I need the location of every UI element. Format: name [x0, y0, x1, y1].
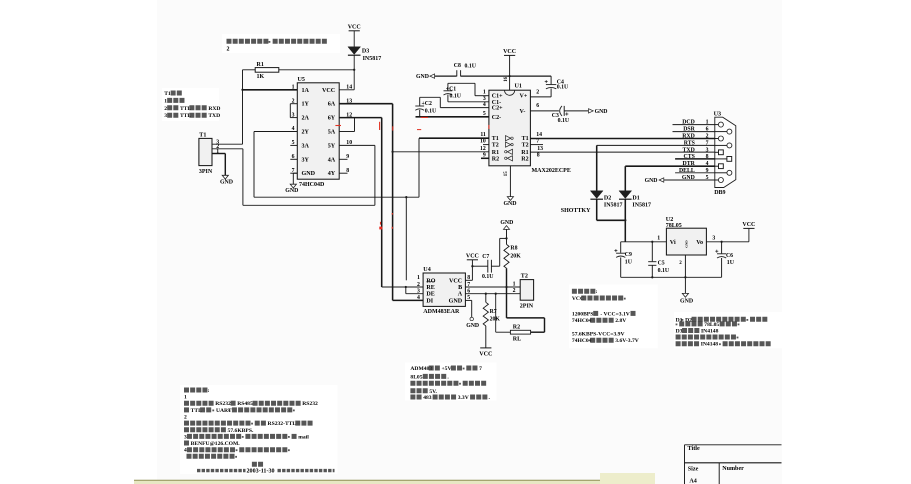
- capacitor C9: [620, 242, 622, 253]
- node junction C5 tap: [651, 241, 653, 243]
- svg-text:20K: 20K: [510, 253, 521, 259]
- svg-text:2PIN: 2PIN: [520, 303, 534, 309]
- svg-text:12: 12: [480, 146, 486, 152]
- svg-text:0.1U: 0.1U: [465, 64, 477, 70]
- svg-text:1: 1: [292, 85, 295, 91]
- capacitor C7: [472, 265, 487, 267]
- note background boxes: [222, 34, 340, 53]
- svg-text:8L05: 8L05: [410, 374, 422, 380]
- svg-text:IN5817: IN5817: [632, 202, 651, 208]
- svg-text:57.6KBPS-VCC=3.9V: 57.6KBPS-VCC=3.9V: [572, 331, 625, 337]
- node junction R1 right end: [353, 69, 355, 71]
- svg-text:1: 1: [417, 275, 420, 281]
- svg-text:T2: T2: [521, 273, 528, 279]
- svg-text:GND: GND: [680, 298, 693, 304]
- svg-text:D2: D2: [604, 195, 611, 201]
- red mark 4: [335, 125, 341, 127]
- svg-text:Number: Number: [722, 466, 744, 472]
- svg-text:DB9: DB9: [714, 190, 725, 196]
- wire RE to DE jog: [405, 287, 407, 294]
- wire DB9 GND: [664, 179, 715, 181]
- svg-text:D1: D1: [632, 195, 639, 201]
- wire VCC stem into U1 pin16: [509, 55, 511, 90]
- capacitor C4: [550, 76, 552, 84]
- ground symbol T1 pin1: [222, 175, 228, 179]
- red mark 8: [380, 222, 382, 225]
- svg-text:GND: GND: [595, 109, 608, 115]
- svg-text:13: 13: [537, 146, 543, 152]
- svg-text:RE: RE: [426, 285, 434, 291]
- wire U4 GND pin5: [465, 299, 471, 301]
- decor bottom strip: [134, 480, 655, 484]
- red mark 6: [488, 125, 490, 129]
- U5 unused stubs 4A 4Y: [339, 158, 347, 160]
- U5 pin7 GND: [293, 172, 297, 174]
- svg-text::: :: [596, 289, 598, 295]
- svg-text:3.3V: 3.3V: [458, 395, 469, 401]
- wire 1Y to 2A jog: [289, 104, 291, 118]
- power VCC U1: [504, 54, 515, 56]
- U1 top notch arc: [505, 90, 515, 95]
- svg-text:4: 4: [417, 295, 420, 301]
- node junction VCC stem: [508, 75, 510, 77]
- capacitor C2: [415, 105, 424, 107]
- wire 5Y output to T1 pin2 bus: [339, 144, 375, 146]
- svg-text:GND: GND: [449, 298, 463, 304]
- svg-text:VCC: VCC: [742, 222, 755, 228]
- svg-text:VCC: VCC: [479, 351, 492, 357]
- power VCC U4: [467, 259, 478, 261]
- svg-text:1U: 1U: [727, 260, 735, 266]
- U4 RE overline: [426, 281, 434, 283]
- wire R7 to VCC: [485, 326, 487, 348]
- diode D2: [590, 191, 603, 199]
- svg-text:74HC04D: 74HC04D: [299, 182, 325, 188]
- svg-text:GND: GND: [466, 323, 479, 329]
- U5 left pin stubs: [290, 103, 297, 105]
- svg-text:3Y: 3Y: [302, 157, 310, 163]
- power VCC (top, above D3): [349, 30, 360, 32]
- node junction R1OUT joins 6A/DI net: [391, 151, 393, 153]
- svg-text:IN5817: IN5817: [604, 202, 623, 208]
- svg-text:R1: R1: [521, 150, 528, 156]
- ground symbol U4 (circle style): [470, 317, 473, 320]
- svg-text:1Y: 1Y: [302, 102, 310, 108]
- svg-text:RL: RL: [513, 337, 521, 343]
- svg-text:2003-11-30: 2003-11-30: [247, 468, 275, 474]
- svg-text:78L05: 78L05: [704, 322, 719, 328]
- svg-text:5V.: 5V.: [429, 389, 437, 395]
- capacitor C6: [721, 242, 723, 254]
- svg-text:R8: R8: [510, 246, 517, 252]
- regulator U2 78L05 body: [666, 228, 706, 255]
- note: dashed date line: [197, 469, 246, 472]
- svg-text:RS485: RS485: [237, 401, 253, 407]
- connector T2 2PIN body: [520, 280, 533, 301]
- svg-text:6Y: 6Y: [328, 116, 336, 122]
- svg-text:VCC: VCC: [503, 49, 516, 55]
- wire U2 GND pin to rail: [684, 255, 686, 277]
- DB9 holes: [715, 124, 719, 126]
- svg-text:B: B: [458, 285, 462, 291]
- note: test results block: [572, 289, 595, 294]
- svg-text:C1+: C1+: [492, 94, 503, 100]
- svg-text:4Y: 4Y: [328, 171, 336, 177]
- svg-text:RO: RO: [426, 278, 435, 284]
- svg-text:IN4148: IN4148: [701, 342, 719, 348]
- wire branch down to U4 RO: [405, 197, 407, 280]
- wire B net down to RL: [506, 287, 508, 318]
- wire U1 T2OUT stub: [530, 144, 543, 146]
- svg-text:3: 3: [184, 434, 187, 440]
- svg-text:T2: T2: [492, 143, 499, 149]
- svg-text:C2+: C2+: [492, 106, 503, 112]
- svg-text:1U: 1U: [625, 259, 633, 265]
- wire DSR: [673, 131, 715, 133]
- svg-text:1: 1: [184, 395, 187, 401]
- node junction B/RL: [505, 286, 507, 288]
- svg-text:1: 1: [483, 90, 486, 96]
- svg-text:2: 2: [164, 106, 167, 112]
- svg-text:2: 2: [184, 415, 187, 421]
- wire DTR down to D1: [624, 166, 626, 191]
- svg-text:RXD: RXD: [208, 106, 220, 112]
- svg-text:4A: 4A: [328, 157, 336, 163]
- wire U4 A row to T2 pin2: [465, 293, 520, 295]
- svg-text:RS232: RS232: [302, 401, 318, 407]
- svg-text:3: 3: [164, 113, 167, 119]
- svg-text:C8: C8: [454, 63, 461, 69]
- wire R1 left down to T1 pin3: [242, 70, 244, 144]
- wire U1 T1IN row: [419, 137, 489, 139]
- svg-text:10: 10: [480, 139, 486, 145]
- svg-text:ADM483EAR: ADM483EAR: [423, 309, 460, 315]
- svg-text:R2: R2: [521, 156, 528, 162]
- svg-text:T1: T1: [522, 136, 529, 142]
- node junction A/RL: [495, 293, 497, 295]
- svg-text:A: A: [458, 292, 463, 298]
- wire RE row into U4: [382, 286, 423, 288]
- svg-text:VCC: VCC: [348, 25, 361, 31]
- note: pull-up resistor comment (simulated hanzi): [227, 39, 269, 44]
- svg-text:3A: 3A: [302, 143, 310, 149]
- svg-text:Title: Title: [688, 445, 701, 452]
- svg-text:IN4148: IN4148: [701, 329, 719, 335]
- svg-text:14: 14: [346, 85, 352, 91]
- svg-text:C5: C5: [658, 261, 665, 267]
- svg-text:1: 1: [657, 236, 660, 242]
- svg-text:RS232: RS232: [215, 401, 231, 407]
- svg-text:+C1: +C1: [446, 86, 456, 92]
- svg-text:3: 3: [417, 289, 420, 295]
- svg-text:5A: 5A: [328, 130, 336, 136]
- resistor R8: [504, 244, 509, 268]
- svg-text:SHOTTKY: SHOTTKY: [561, 208, 591, 214]
- svg-text:0.1U: 0.1U: [557, 85, 569, 91]
- svg-text:16: 16: [504, 76, 509, 81]
- wire D1 cathode down to 78L05 input: [624, 199, 626, 242]
- wire VCC to D3: [353, 31, 355, 47]
- svg-text:2: 2: [417, 282, 420, 288]
- svg-text:C6: C6: [726, 253, 733, 259]
- svg-text:3: 3: [712, 236, 715, 242]
- svg-text:GND: GND: [285, 188, 298, 194]
- IC U1 MAX202ECPE body: [489, 90, 531, 166]
- svg-text:11: 11: [480, 132, 486, 138]
- wire U4 B row to T2 pin1: [465, 286, 520, 288]
- ground symbol right of C3: [589, 109, 594, 113]
- svg-text:DE: DE: [426, 292, 434, 298]
- svg-text:6A: 6A: [328, 102, 336, 108]
- svg-text:3.6V-3.7V: 3.6V-3.7V: [615, 338, 639, 344]
- wire 6Y to 5A loop: [354, 118, 356, 132]
- svg-text:U4: U4: [423, 267, 430, 273]
- title block frame: [685, 444, 782, 446]
- svg-text:R2: R2: [492, 156, 499, 162]
- connector U3 DB9 shell: [715, 117, 736, 187]
- wire TXD to U1 R1IN: [530, 151, 714, 153]
- svg-text:GND: GND: [645, 178, 658, 184]
- svg-text:D3: D3: [362, 49, 369, 55]
- wire C3 to GND arrow: [564, 110, 588, 112]
- wire D2 cathode to junction: [596, 199, 598, 220]
- wire RXD from U1 T1OUT: [530, 138, 714, 140]
- wire T1 pin1 to ground: [212, 153, 225, 155]
- ground symbol U2: [684, 277, 686, 293]
- red mark 10: [391, 213, 393, 215]
- wire V- to C3: [530, 110, 559, 112]
- wire U1 R1OUT row: [393, 151, 489, 153]
- svg-text:2: 2: [513, 288, 516, 294]
- wire DCD: [673, 124, 715, 126]
- svg-text:2: 2: [227, 47, 230, 53]
- svg-text:Size: Size: [688, 467, 699, 473]
- svg-text:A4: A4: [689, 479, 696, 484]
- svg-text:GND: GND: [302, 171, 316, 177]
- svg-text:U5: U5: [298, 77, 305, 83]
- svg-text:TXD: TXD: [208, 113, 220, 119]
- wire U2 output to VCC: [706, 241, 749, 243]
- wire DELL: [675, 172, 715, 174]
- svg-text:74HC04: 74HC04: [572, 318, 592, 324]
- wire T1 pin3 up to R1 node: [212, 143, 243, 145]
- wire DI row into U4: [393, 299, 424, 301]
- red mark 3: [392, 126, 394, 130]
- svg-text:483: 483: [423, 395, 432, 401]
- wire CTS: [675, 158, 715, 160]
- capacitor C1 loop: [448, 82, 475, 84]
- svg-text:5: 5: [483, 111, 486, 117]
- connector T1 3PIN body: [199, 138, 212, 165]
- svg-text:U1: U1: [515, 84, 522, 90]
- svg-text:15: 15: [504, 171, 509, 176]
- wire net 1A input: [243, 89, 298, 91]
- wire U1 pin15 to ground: [509, 166, 511, 197]
- node junction RE/DE tie: [405, 286, 407, 288]
- svg-text:1: 1: [164, 98, 167, 104]
- svg-text:78L05: 78L05: [666, 223, 682, 229]
- resistor R7: [485, 294, 487, 303]
- wire U1 R2OUT stub: [481, 157, 489, 159]
- svg-text:V+: V+: [520, 94, 528, 100]
- power VCC below R7: [480, 347, 491, 349]
- svg-text:0.1U: 0.1U: [658, 268, 670, 274]
- wire D3 cathode to node R1/pin14: [353, 55, 355, 90]
- svg-text:2Y: 2Y: [302, 130, 310, 136]
- node junction RO branch: [405, 196, 407, 198]
- svg-text:57.6KBPS.: 57.6KBPS.: [228, 428, 254, 434]
- wire 6A to DI vertical bus: [339, 103, 392, 105]
- svg-text:R1: R1: [257, 62, 264, 68]
- svg-text:R7: R7: [490, 309, 497, 315]
- svg-text:1: 1: [513, 281, 516, 287]
- wire GND to C8: [435, 75, 457, 77]
- ground symbol U5 pin7: [290, 184, 296, 188]
- svg-text:0.1U: 0.1U: [558, 118, 570, 124]
- node junction C7/R8: [505, 237, 507, 239]
- svg-text:BENFU@126.COM.: BENFU@126.COM.: [191, 441, 241, 447]
- svg-text:T1: T1: [164, 91, 171, 97]
- wire T1 pin2 down to 5Y bus: [212, 148, 243, 150]
- node junction A/R7: [485, 293, 487, 295]
- svg-text:C9: C9: [625, 252, 632, 258]
- U1 internal buffer triangles: [506, 136, 511, 141]
- svg-text:V-: V-: [520, 109, 526, 115]
- note: circuit description block: [184, 388, 207, 393]
- wire bottom rail: [621, 276, 722, 278]
- svg-text:U3: U3: [714, 111, 721, 117]
- svg-text:7: 7: [479, 366, 482, 372]
- red mark 5: [417, 129, 421, 131]
- svg-text:6: 6: [536, 103, 539, 109]
- svg-text:DI: DI: [426, 298, 433, 304]
- svg-text:RS232-TTL: RS232-TTL: [268, 421, 297, 427]
- svg-text:U2: U2: [666, 217, 673, 223]
- svg-text:9: 9: [483, 152, 486, 158]
- wire R8 to B row: [506, 268, 508, 287]
- svg-text:MAX202ECPE: MAX202ECPE: [532, 168, 571, 174]
- svg-text:+5V: +5V: [442, 366, 452, 372]
- svg-text:4: 4: [483, 102, 486, 108]
- svg-text:GND: GND: [220, 180, 233, 186]
- svg-text:GND: GND: [416, 74, 429, 80]
- svg-text:14: 14: [536, 132, 542, 138]
- svg-text:1A: 1A: [302, 88, 310, 94]
- svg-text:20K: 20K: [490, 316, 501, 322]
- wire RTS down to D2: [596, 145, 598, 190]
- power VCC output: [748, 228, 750, 241]
- resistor R2 RL: [510, 330, 530, 334]
- svg-text:2.8V: 2.8V: [615, 318, 626, 324]
- svg-text:T1: T1: [199, 133, 206, 139]
- svg-text:Vi: Vi: [670, 240, 676, 246]
- svg-text:C7: C7: [482, 254, 489, 260]
- svg-text:VCC: VCC: [322, 88, 335, 94]
- svg-text:0.1U: 0.1U: [450, 94, 462, 100]
- svg-text:GND: GND: [503, 201, 516, 207]
- wire 2Y output to bottom bus: [254, 131, 297, 133]
- node junction 1A input: [241, 89, 243, 91]
- svg-text:3PIN: 3PIN: [199, 169, 213, 175]
- svg-text:IN5817: IN5817: [363, 56, 382, 62]
- red mark 2: [379, 122, 381, 130]
- red mark 9: [379, 227, 382, 230]
- svg-text:2A: 2A: [302, 116, 310, 122]
- capacitor C1: [444, 90, 453, 92]
- svg-text:5Y: 5Y: [328, 143, 336, 149]
- svg-text:4: 4: [184, 448, 187, 454]
- svg-text:R1: R1: [492, 150, 499, 156]
- capacitor C8: [456, 70, 458, 76]
- svg-text:74HC04: 74HC04: [572, 338, 592, 344]
- wire RTS from D2: [597, 144, 715, 146]
- svg-text:+C2: +C2: [422, 101, 432, 107]
- svg-text::: :: [208, 388, 210, 394]
- red mark 11: [391, 227, 393, 229]
- svg-text:GND: GND: [685, 240, 689, 248]
- capacitor C2 loop: [420, 96, 441, 98]
- node junction C6 tap: [720, 241, 722, 243]
- svg-text:T2: T2: [522, 143, 529, 149]
- wire U1 T2IN stub: [483, 144, 489, 146]
- svg-text:GND: GND: [500, 220, 513, 226]
- wire 6Y to RE vertical bus: [339, 117, 382, 119]
- svg-text:2: 2: [536, 90, 539, 96]
- svg-text:8: 8: [537, 152, 540, 158]
- IC U4 ADM483EAR body: [423, 273, 465, 306]
- wire C4 to V+ pin2: [530, 96, 551, 98]
- wire pin14 VCC stub U5: [339, 89, 354, 91]
- wire VCC stem to pin8: [471, 260, 473, 281]
- IC U5 74HC04D body: [297, 83, 339, 179]
- svg-text:D3: D3: [676, 329, 683, 335]
- wire C8 to VCC rail to C4: [461, 75, 551, 77]
- svg-text:VCC: VCC: [466, 253, 479, 259]
- diode D3: [348, 47, 361, 55]
- svg-text:Vo: Vo: [696, 240, 703, 246]
- wire up to MAX202 T1IN: [418, 138, 420, 197]
- svg-text:T1: T1: [492, 136, 499, 142]
- capacitor C5: [651, 242, 653, 261]
- wire DTR from D1: [625, 165, 715, 167]
- svg-text:7: 7: [536, 139, 539, 145]
- wire C2- row (thick): [416, 116, 489, 118]
- svg-text:R2: R2: [513, 325, 520, 331]
- svg-text:C2-: C2-: [492, 115, 501, 121]
- node junction diode cathodes: [624, 219, 626, 221]
- svg-text:mail: mail: [298, 434, 309, 440]
- svg-text:0.1U: 0.1U: [482, 274, 494, 280]
- svg-text:- VCC=3.1V: - VCC=3.1V: [600, 311, 630, 317]
- svg-text:1200BPS: 1200BPS: [572, 311, 593, 317]
- ground symbol U1 pin15: [507, 197, 513, 201]
- svg-text:VCC: VCC: [449, 278, 462, 284]
- resistor R1: [243, 69, 256, 71]
- capacitor C3: [560, 106, 562, 116]
- red mark 1: [421, 116, 428, 118]
- paper tint: [157, 0, 782, 484]
- svg-text:0.1U: 0.1U: [425, 108, 437, 114]
- wire A net down to RL: [495, 294, 497, 333]
- diode D1: [619, 191, 632, 199]
- svg-text:1K: 1K: [257, 74, 265, 80]
- note: author signature: [252, 462, 263, 467]
- wire input rail to U2: [621, 241, 667, 243]
